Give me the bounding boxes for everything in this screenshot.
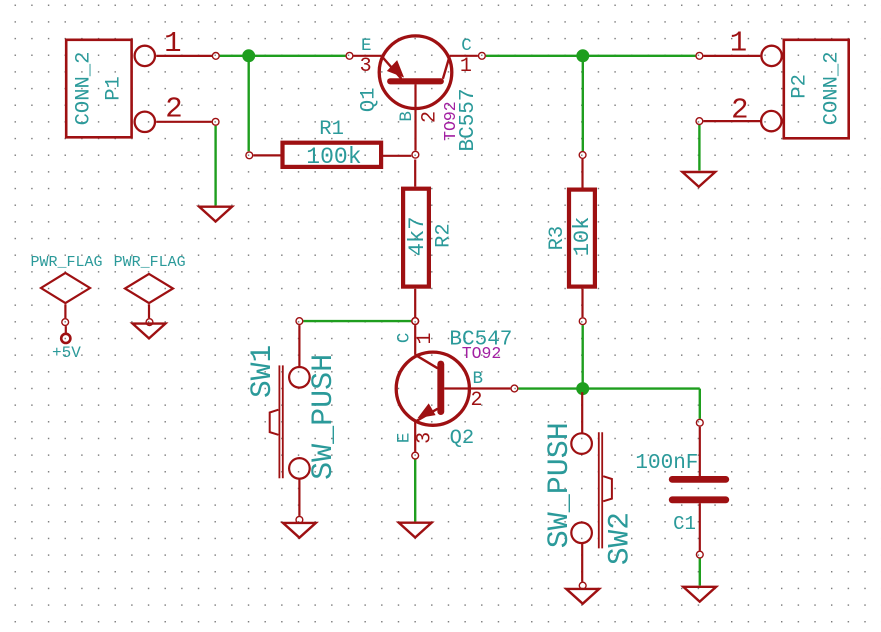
- svg-text:10k: 10k: [570, 217, 595, 257]
- wire SW1 to R2 bottom: [303, 320, 411, 322]
- node junction J1: [243, 50, 255, 62]
- node junction J3: [577, 383, 589, 395]
- Q1 pin name E: [361, 36, 372, 56]
- SW1 value SW_PUSH: [307, 354, 341, 480]
- svg-text:2: 2: [418, 111, 441, 123]
- P1 pin 2: [135, 93, 212, 132]
- svg-text:SW_PUSH: SW_PUSH: [543, 422, 577, 548]
- switch SW1 SW_PUSH symbol: [270, 325, 310, 516]
- R2 reference: [433, 223, 456, 248]
- Q1 pin name C: [461, 36, 472, 56]
- C1 bottom pin end: [696, 551, 703, 558]
- Q1 pin number 3: [360, 55, 372, 78]
- power flag PF1 symbol: [41, 273, 90, 318]
- capacitor C1 symbol: [672, 427, 726, 551]
- ground below SW1: [283, 523, 316, 538]
- R3 bottom pin end: [579, 318, 586, 325]
- wire Q2 base horizontal: [518, 387, 700, 389]
- svg-text:C: C: [461, 36, 472, 56]
- svg-text:2: 2: [165, 93, 182, 126]
- svg-text:3: 3: [414, 432, 437, 444]
- node junction J2: [577, 50, 589, 62]
- wire P1 pin2 to ground: [214, 126, 216, 206]
- Q1 pin number 1: [460, 55, 472, 78]
- resistor R3 body: [569, 159, 595, 317]
- svg-text:2: 2: [731, 94, 748, 127]
- wire net1 drop to R3: [582, 56, 584, 151]
- ground below SW2: [566, 589, 599, 604]
- svg-text:B: B: [397, 111, 417, 122]
- P2 pin 1: [703, 27, 781, 67]
- P1 pin 2 end: [212, 118, 219, 125]
- PF2 label PWR_FLAG: [114, 254, 186, 271]
- connector P2 label P2: [789, 74, 812, 99]
- R3 top pin end: [579, 152, 586, 159]
- svg-text:E: E: [361, 36, 372, 56]
- svg-text:PWR_FLAG: PWR_FLAG: [30, 254, 102, 271]
- svg-text:CONN_2: CONN_2: [821, 51, 844, 125]
- svg-text:P2: P2: [789, 74, 812, 99]
- Q1 reference: [357, 87, 380, 112]
- Q1 pin number 2: [418, 111, 441, 123]
- svg-text:1: 1: [414, 332, 437, 344]
- svg-text:BC557: BC557: [457, 88, 480, 151]
- SW2 reference: [603, 512, 637, 565]
- wire net1 drop to R1: [247, 56, 249, 151]
- svg-text:+5V: +5V: [52, 344, 81, 362]
- ground below P2 pin2: [682, 172, 715, 187]
- ground below P1 pin2: [199, 207, 232, 222]
- svg-text:4k7: 4k7: [405, 217, 430, 257]
- Q2 footprint TO92: [462, 344, 502, 363]
- Q2 pin name C: [394, 333, 414, 344]
- +5V label: [52, 344, 81, 362]
- svg-text:E: E: [394, 433, 414, 444]
- connector P1 body: [66, 40, 131, 138]
- P2 pin 2: [703, 94, 781, 132]
- Q2 emitter pin end: [412, 452, 419, 459]
- SW1 top pin end: [296, 318, 303, 325]
- Q2 collector pin end: [412, 318, 419, 325]
- PF1 pin end: [62, 319, 69, 326]
- C1 top pin end: [696, 419, 703, 426]
- P2 pin 2 end: [696, 118, 703, 125]
- svg-text:C1: C1: [673, 513, 696, 535]
- R2 bottom pin end: [412, 318, 419, 325]
- Q1 base pin end: [412, 151, 419, 158]
- Q1 footprint TO92: [441, 101, 460, 141]
- Q1 value BC557: [457, 88, 480, 151]
- svg-text:TO92: TO92: [462, 344, 502, 363]
- svg-text:C: C: [394, 333, 414, 344]
- P1 pin 1: [135, 27, 212, 66]
- svg-text:R2: R2: [433, 223, 456, 248]
- Q2 pin number 1: [414, 332, 437, 344]
- wire P2 pin2 to ground: [698, 125, 700, 171]
- svg-text:2: 2: [470, 389, 482, 412]
- Q2 value BC547: [449, 328, 512, 351]
- wire C1 bottom to ground: [699, 559, 701, 586]
- Q1 collector pin end: [479, 52, 486, 59]
- PF2 pin end: [146, 319, 153, 326]
- svg-text:R3: R3: [546, 226, 569, 251]
- svg-text:SW2: SW2: [603, 512, 637, 565]
- svg-text:Q2: Q2: [450, 427, 475, 450]
- wire Q2 emitter to ground: [414, 460, 416, 522]
- Q2 reference: [450, 427, 475, 450]
- C1 reference: [673, 513, 696, 535]
- Q1 pin name B: [397, 111, 417, 122]
- power symbol +5V: [61, 326, 70, 343]
- R3 value 10k: [570, 217, 595, 257]
- Q1 emitter pin end: [346, 52, 353, 59]
- SW2 value SW_PUSH: [543, 422, 577, 548]
- Q2 pin number 3: [414, 432, 437, 444]
- R1 value 100k: [306, 144, 361, 170]
- svg-text:Q1: Q1: [357, 87, 380, 112]
- R1 left pin end: [246, 152, 253, 159]
- wire net1 top rail left segment: [220, 55, 346, 57]
- svg-text:100k: 100k: [306, 144, 361, 170]
- ground below PF2: [133, 324, 166, 339]
- wire net1 top rail right segment: [486, 55, 696, 57]
- power flag PF2 symbol: [125, 274, 173, 318]
- Q2 pin name B: [473, 369, 484, 389]
- R1 reference: [319, 118, 344, 141]
- connector P2 label CONN_2: [821, 51, 844, 125]
- resistor R2 body: [403, 160, 429, 318]
- SW2 bottom pin end: [579, 582, 586, 589]
- transistor Q1 BC557 symbol: [354, 36, 478, 151]
- wire base net corner down to C1: [699, 389, 701, 419]
- connector P2 body: [784, 40, 849, 139]
- transistor Q2 BC547 symbol: [396, 325, 510, 452]
- resistor R1 body: [253, 143, 411, 167]
- Q2 pin name E: [394, 433, 414, 444]
- PF1 label PWR_FLAG: [30, 254, 102, 271]
- connector P1 label P1: [102, 76, 125, 101]
- svg-text:R1: R1: [319, 118, 344, 141]
- svg-text:SW1: SW1: [245, 345, 279, 398]
- svg-text:B: B: [473, 369, 484, 389]
- ground below C1: [683, 587, 716, 602]
- switch SW2 SW_PUSH symbol: [571, 392, 612, 582]
- svg-text:1: 1: [460, 55, 472, 78]
- SW1 reference: [245, 345, 279, 398]
- SW1 bottom pin end: [296, 516, 303, 523]
- wire R3 bottom to base net: [582, 325, 584, 389]
- svg-text:SW_PUSH: SW_PUSH: [307, 354, 341, 480]
- svg-text:100nF: 100nF: [635, 452, 698, 475]
- C1 value 100nF: [635, 452, 698, 475]
- ground below Q2 emitter: [399, 523, 432, 538]
- connector P1 label CONN_2: [72, 52, 95, 126]
- svg-text:P1: P1: [102, 76, 125, 101]
- P1 pin 1 end: [212, 53, 219, 60]
- Q2 pin number 2: [470, 389, 482, 412]
- R3 reference: [546, 226, 569, 251]
- P2 pin 1 end: [696, 52, 703, 59]
- svg-text:3: 3: [360, 55, 372, 78]
- Q2 base pin end: [511, 385, 518, 392]
- svg-text:PWR_FLAG: PWR_FLAG: [114, 254, 186, 271]
- svg-text:1: 1: [730, 27, 747, 60]
- svg-text:CONN_2: CONN_2: [72, 52, 95, 126]
- R2 value 4k7: [405, 217, 430, 257]
- svg-text:1: 1: [164, 27, 181, 60]
